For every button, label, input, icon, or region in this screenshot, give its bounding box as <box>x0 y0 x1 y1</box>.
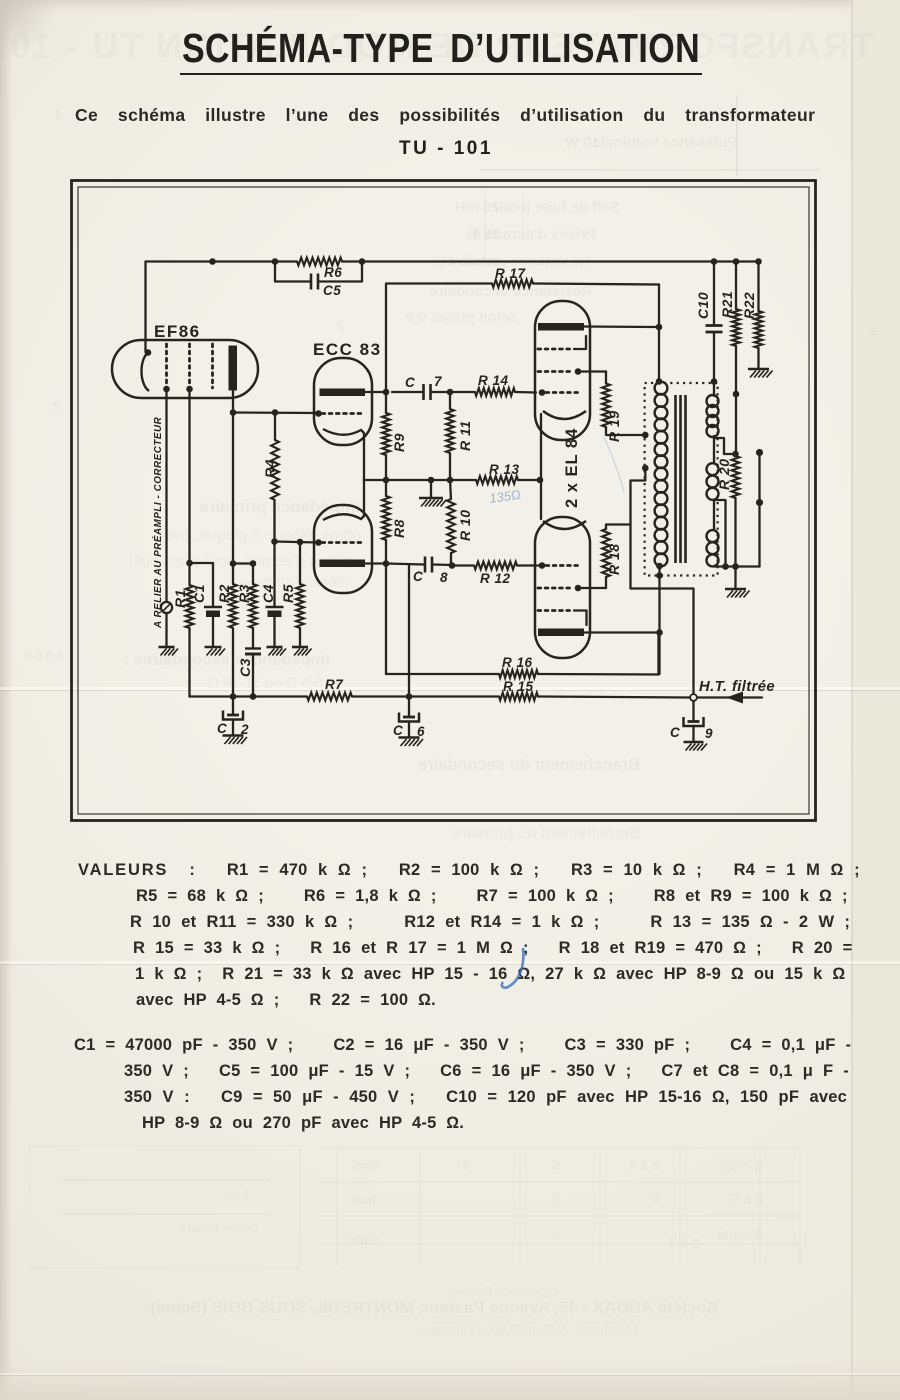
svg-text:C10: C10 <box>695 292 711 319</box>
svg-text:R 19: R 19 <box>606 410 622 442</box>
wire anode riser <box>386 284 492 393</box>
EF86 cathode arc <box>142 349 152 391</box>
resistor R5 <box>280 542 304 646</box>
svg-text:2 x EL 84: 2 x EL 84 <box>563 428 581 508</box>
double triode ECC83 envelope <box>313 340 382 593</box>
resistor R21 <box>719 258 740 454</box>
ECC83 lower cathode <box>323 480 364 520</box>
transformer TU-101 dotted box <box>645 383 718 576</box>
input terminal <box>161 602 172 646</box>
wire EF86 cathode branch <box>186 389 213 566</box>
EF86 grid pins (dotted) <box>163 344 212 392</box>
wire top rail <box>146 260 760 262</box>
svg-text:A RELIER AU PRÉAMPLI - CORRECT: A RELIER AU PRÉAMPLI - CORRECTEUR <box>153 416 164 629</box>
wire decoupling bus <box>190 693 308 700</box>
label HT filtree <box>699 679 775 695</box>
resistor R2 <box>216 564 237 697</box>
svg-text:R9: R9 <box>391 433 407 452</box>
svg-text:H.T. filtrée: H.T. filtrée <box>699 679 775 695</box>
wire HT arrow <box>697 692 762 704</box>
capacitor C2 <box>217 697 249 738</box>
EL84 upper cathode <box>537 411 586 519</box>
capacitor C3 <box>237 649 261 697</box>
schematic border frame <box>72 181 816 821</box>
ground secondary <box>725 567 750 598</box>
resistor R7 <box>307 677 409 700</box>
svg-text:R 14: R 14 <box>478 373 509 388</box>
ground C2 <box>223 736 248 745</box>
resistor R3 <box>236 564 257 648</box>
transformer primary winding <box>642 382 667 567</box>
svg-text:C: C <box>413 569 423 584</box>
wire primary feed <box>656 285 663 385</box>
HP terminal upper <box>756 449 763 499</box>
capacitor C8 <box>383 557 452 586</box>
crease lines <box>0 687 900 690</box>
EL84 upper anode bar <box>538 323 659 331</box>
ECC83 lower anode bar <box>320 560 387 568</box>
node rail junctions <box>209 258 365 265</box>
ground R5 <box>292 647 312 656</box>
wire anode to divider <box>230 413 257 567</box>
svg-text:C4: C4 <box>260 584 276 603</box>
resistor R11 <box>446 389 473 480</box>
EF86 anode bar <box>229 346 238 391</box>
svg-text:R 16: R 16 <box>502 655 533 670</box>
svg-text:C5: C5 <box>323 283 341 298</box>
resistor R18 <box>602 525 630 589</box>
capacitor C4 <box>260 542 284 647</box>
capacitor C9 <box>670 701 713 741</box>
wire secondary tap lower <box>714 500 729 570</box>
svg-text:R 12: R 12 <box>480 571 511 586</box>
capacitor C10 <box>695 258 723 381</box>
svg-text:EF86: EF86 <box>154 322 201 341</box>
resistor R6 <box>297 258 342 280</box>
power tubes 2xEL84 envelope <box>535 301 590 658</box>
wire EF86 anode line <box>230 391 322 417</box>
ground C9 <box>684 742 708 751</box>
EL84 lower grid3 (dotted) <box>538 611 587 626</box>
wire EF86 grid down to input <box>165 389 167 601</box>
svg-text:R 15: R 15 <box>503 679 534 694</box>
svg-text:R7: R7 <box>325 677 344 692</box>
svg-text:C: C <box>405 375 415 390</box>
pentode EF86 envelope <box>112 322 258 398</box>
svg-text:R1: R1 <box>172 589 188 608</box>
wire screen tap link <box>631 468 660 589</box>
ground C6 <box>399 738 424 747</box>
svg-text:C: C <box>393 723 403 738</box>
svg-text:ECC 83: ECC 83 <box>313 340 382 359</box>
svg-text:R 20: R 20 <box>716 458 732 490</box>
node HT junction <box>690 694 697 701</box>
wire ground bus <box>364 477 476 484</box>
svg-text:C: C <box>217 721 227 736</box>
ground C4 <box>267 647 287 656</box>
wire HT feed <box>660 589 694 695</box>
svg-text:R4: R4 <box>262 459 278 478</box>
svg-text:R22: R22 <box>741 292 757 319</box>
svg-text:9: 9 <box>705 726 713 741</box>
EL84 lower grid2 (dotted) <box>538 585 606 592</box>
EL84 lower grid1 (dotted) <box>539 562 580 569</box>
svg-text:R5: R5 <box>280 584 296 603</box>
ECC83 upper cathode <box>323 429 364 480</box>
resistor R15 <box>409 679 690 700</box>
svg-text:8: 8 <box>440 570 448 585</box>
resistor R19 <box>602 372 645 443</box>
svg-text:R 11: R 11 <box>457 420 473 451</box>
wire secondary tap upper <box>714 438 739 457</box>
resistor R12 <box>452 562 538 586</box>
resistor R9 <box>382 389 407 480</box>
capacitor C5 <box>275 262 362 299</box>
resistor R10 <box>447 480 473 569</box>
capacitor values paragraph <box>74 1036 851 1055</box>
ground R22 <box>748 369 773 378</box>
ground bus <box>419 480 447 507</box>
svg-text:R 18: R 18 <box>606 543 622 575</box>
svg-text:R 13: R 13 <box>489 462 520 477</box>
svg-text:R 17: R 17 <box>495 266 527 281</box>
EL84 upper grid2 (dotted) <box>538 368 606 375</box>
wire C6 riser <box>408 565 410 697</box>
wire secondary bottom <box>714 563 760 570</box>
EL84 lower anode bar <box>538 629 659 637</box>
EL84 lower cathode <box>543 521 586 529</box>
ground input <box>159 647 179 656</box>
wire R8 node to R16 line <box>385 564 387 675</box>
annotation blue stroke <box>604 437 624 492</box>
svg-text:R6: R6 <box>324 265 342 280</box>
capacitor C1 <box>191 563 222 646</box>
svg-text:7: 7 <box>434 374 443 389</box>
wire primary bottom <box>656 563 663 674</box>
EL84 upper grid1 (dotted) <box>539 389 580 396</box>
title <box>182 25 700 72</box>
resistor R16 <box>386 633 659 678</box>
resistor R4 <box>262 409 279 541</box>
label a relier au preampli-correcteur <box>153 416 164 629</box>
EL84 upper grid3 (dotted) <box>538 336 586 349</box>
svg-text:R21: R21 <box>719 291 735 318</box>
resistor R20 <box>716 456 739 567</box>
resistor R17 <box>492 266 659 287</box>
svg-text:C: C <box>670 725 680 740</box>
capacitor C7 <box>386 374 450 400</box>
transformer secondary winding <box>707 378 719 566</box>
capacitor C6 <box>393 693 425 739</box>
transformer core <box>676 395 686 563</box>
annotation blue 135 ohm <box>488 487 521 506</box>
svg-text:C1: C1 <box>191 584 207 603</box>
ECC83 upper grid (dotted) <box>322 412 362 415</box>
ground C1 <box>205 647 226 656</box>
resistor R8 <box>382 477 407 564</box>
svg-text:R 10: R 10 <box>457 509 473 541</box>
wire grid2 node <box>271 538 322 546</box>
ECC83 lower grid (dotted) <box>322 541 362 544</box>
blue pen mark <box>495 935 555 1005</box>
resistor R22 <box>741 258 762 368</box>
resistor R1 <box>172 563 193 697</box>
HP terminal lower <box>756 499 763 567</box>
wire EF86 feedback to cathode <box>144 262 146 353</box>
resistor R14 <box>450 373 536 396</box>
svg-text:R8: R8 <box>391 519 407 538</box>
ECC83 upper anode bar <box>320 389 387 397</box>
VALEURS paragraph <box>78 861 860 880</box>
svg-text:135Ω: 135Ω <box>488 487 521 506</box>
svg-text:R3: R3 <box>236 584 252 603</box>
svg-text:C3: C3 <box>237 658 253 677</box>
resistor R13 <box>476 462 540 484</box>
svg-text:R2: R2 <box>216 584 232 603</box>
